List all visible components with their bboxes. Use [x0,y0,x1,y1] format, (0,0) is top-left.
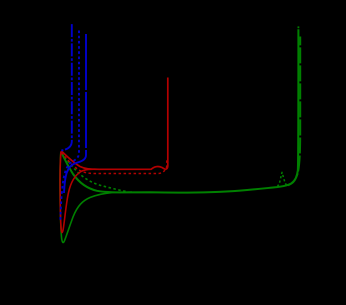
green curve G2 dive and recovery [60,152,132,242]
red curve R2 dive and recovery [60,152,100,233]
green dashed G5 second vertical [288,37,300,186]
green dotted G3 diagonal [62,153,127,192]
green curve G1 main with plateau and vertical rise [61,29,298,192]
green dotted spike near x=281 [278,172,287,186]
green top dash [297,26,299,28]
blue dotted B2 vertical with sweep to lower left [60,31,79,223]
red curve R1 main with plateau, bump and vertical rise [61,78,168,170]
blue dash-dot B1 vertical with hook [61,24,72,150]
red dotted R3 lower plateau [62,153,167,174]
blue solid B3 vertical with hook [64,34,86,193]
